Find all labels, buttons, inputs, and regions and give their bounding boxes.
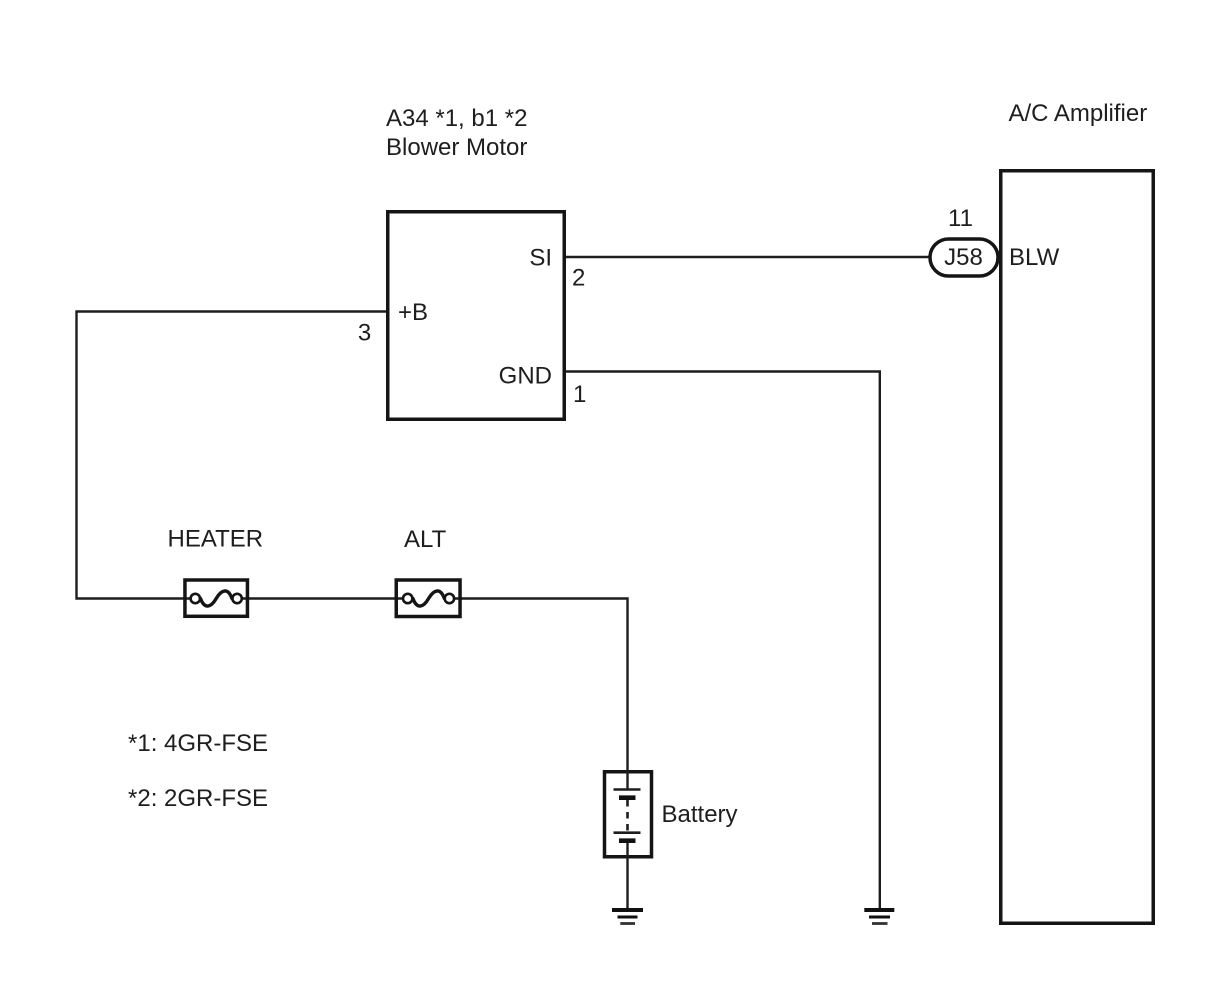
ground under A/C amplifier wire (864, 910, 894, 924)
svg-text:A/C Amplifier: A/C Amplifier (1009, 100, 1148, 127)
wire between fuses (242, 597, 402, 599)
wire GND to ground (566, 372, 880, 909)
svg-text:A34 *1, b1 *2: A34 *1, b1 *2 (386, 105, 527, 132)
fuse HEATER (185, 580, 248, 616)
svg-text:HEATER: HEATER (168, 526, 264, 553)
battery B1 (605, 770, 652, 859)
svg-text:*2: 2GR-FSE: *2: 2GR-FSE (128, 785, 268, 812)
fuse ALT (396, 580, 460, 617)
svg-text:Blower Motor: Blower Motor (386, 134, 527, 161)
wire SI to J58 (566, 256, 930, 258)
svg-text:Battery: Battery (662, 801, 738, 828)
wire +B to fuse row (77, 312, 387, 599)
svg-text:3: 3 (358, 320, 371, 347)
svg-text:BLW: BLW (1009, 244, 1060, 271)
svg-text:ALT: ALT (404, 526, 447, 553)
blower motor box A34 (388, 212, 565, 420)
svg-text:11: 11 (948, 205, 973, 232)
A/C amplifier box (1001, 171, 1154, 924)
connector J58 (930, 239, 998, 276)
wire ALT fuse to battery (454, 599, 628, 771)
svg-text:J58: J58 (944, 244, 983, 271)
svg-text:GND: GND (499, 363, 552, 390)
svg-text:2: 2 (572, 265, 585, 292)
svg-text:1: 1 (573, 381, 586, 408)
blower motor label A34 (386, 105, 527, 161)
wire battery to ground (626, 859, 628, 909)
svg-text:+B: +B (398, 299, 428, 326)
svg-text:SI: SI (529, 245, 552, 272)
svg-text:*1: 4GR-FSE: *1: 4GR-FSE (128, 730, 268, 757)
ground under battery (612, 910, 643, 924)
